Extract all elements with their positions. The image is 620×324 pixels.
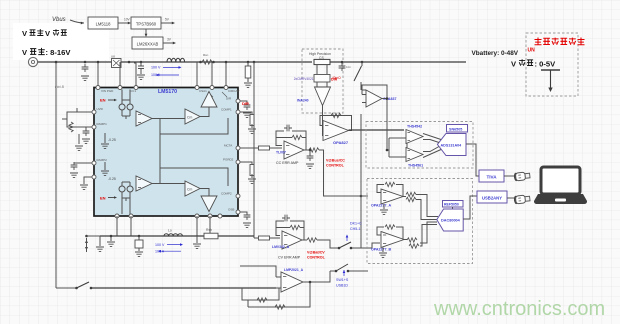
- svg-text:LMV342_A: LMV342_A: [272, 245, 290, 249]
- svg-text:LM5118: LM5118: [96, 21, 111, 26]
- battery symbol: [541, 69, 560, 71]
- svg-text:10n: 10n: [346, 65, 351, 69]
- capacitor C4 left: [83, 128, 90, 136]
- svg-text:100 V: 100 V: [151, 66, 161, 70]
- regulator U3 TPS7B960: [131, 17, 161, 29]
- svg-text:Vbattery: 0-48V: Vbattery: 0-48V: [472, 50, 519, 57]
- wire bottom pins to power bus: [117, 216, 210, 236]
- mcu TIVA box: [479, 170, 504, 182]
- svg-text:MCTA: MCTA: [224, 144, 232, 148]
- wire bottom return bus: [91, 287, 276, 289]
- svg-text:OPA827: OPA827: [333, 140, 349, 145]
- svg-text:www.cntronics.com: www.cntronics.com: [433, 298, 605, 320]
- wire OPA837 into ADC box: [387, 119, 389, 150]
- internal wire A1 to B1: [152, 118, 185, 120]
- op-amp A2: [136, 176, 152, 191]
- wire buffer input top: [240, 266, 281, 288]
- svg-text:CIRCAP: CIRCAP: [228, 89, 239, 93]
- svg-text:-0.25: -0.25: [108, 138, 116, 142]
- internal wire bus mid1: [160, 107, 228, 134]
- DAC dashed box: [367, 179, 473, 264]
- pin circles top: [96, 86, 100, 90]
- svg-text:CH5-1: CH5-1: [350, 227, 360, 231]
- inductor Lm: [167, 58, 185, 62]
- resistor R4 with ground: [78, 134, 80, 144]
- filter network rect: [389, 138, 407, 157]
- CV feedback capacitor: [276, 221, 284, 236]
- svg-text:COMP2: COMP2: [221, 192, 232, 196]
- wire arrow into LM5118: [70, 20, 84, 23]
- RC on COMP1 pin: [240, 101, 247, 104]
- transformer driver U15 SN6505: [447, 125, 468, 133]
- internal wire crossover: [159, 134, 161, 168]
- svg-text:Cm: Cm: [187, 116, 192, 120]
- OPA_B output resistors: [404, 239, 407, 241]
- svg-text:V@Bus/CC: V@Bus/CC: [326, 159, 345, 163]
- wire IC top pin feeds: [98, 62, 226, 86]
- svg-text:OSB: OSB: [228, 208, 234, 212]
- sense box F2: [138, 235, 141, 238]
- label red test battery: [534, 37, 584, 44]
- wire DAC box to USB2ANY: [463, 196, 477, 219]
- wire USB2ANY to usb plug: [507, 197, 514, 199]
- shunt resistor Rcs: [314, 59, 330, 64]
- svg-text:DAC80004: DAC80004: [441, 219, 461, 223]
- svg-text:Lo: Lo: [168, 229, 172, 233]
- ground internal bottom: [104, 162, 106, 170]
- svg-text:10V: 10V: [124, 18, 131, 22]
- inductor Lo: [164, 234, 182, 236]
- op-amp U8 OPA827: [323, 121, 349, 141]
- wire MCTA to CC amp: [240, 147, 258, 149]
- ground G7: [196, 236, 198, 243]
- ground G6: [110, 236, 112, 241]
- current mirror Q1 Q2: [119, 100, 133, 119]
- wire DAC to OPA_B: [420, 222, 437, 246]
- ground G8: [383, 204, 385, 209]
- wire TIVA to usb plug: [504, 175, 514, 177]
- node junction: [253, 61, 256, 64]
- svg-text:Rsh: Rsh: [206, 228, 212, 232]
- wire sense branch down: [253, 62, 255, 238]
- svg-text:Cm: Cm: [187, 188, 192, 192]
- svg-text:SW1+S: SW1+S: [336, 278, 349, 282]
- resistor R2 pullup with ground: [247, 61, 250, 64]
- svg-text:CSA1: CSA1: [199, 89, 207, 93]
- dac U18 DAC80004: [437, 209, 463, 231]
- svg-text:TPS7B960: TPS7B960: [136, 21, 157, 26]
- switch S3: [330, 270, 336, 272]
- svg-text:REF5050: REF5050: [444, 203, 459, 207]
- TVS D1 double arrow: [86, 238, 88, 252]
- svg-text:PGRD2: PGRD2: [223, 158, 234, 162]
- svg-text:DIR: DIR: [242, 101, 249, 106]
- wire INA240 output down: [323, 106, 325, 136]
- switch S1 vertical: [361, 61, 364, 64]
- wire CV output: [302, 239, 307, 241]
- svg-text:INA240: INA240: [297, 99, 309, 103]
- resistor network left of IC: [62, 108, 92, 127]
- white label panel top-left: [13, 23, 109, 60]
- wire OPA_A output resistor: [403, 196, 406, 198]
- svg-text:DK1+C: DK1+C: [350, 222, 362, 226]
- ground G9: [382, 248, 384, 253]
- switch S2: [339, 242, 351, 248]
- usb plug icon 1: [514, 171, 531, 181]
- wire REF to DAC: [452, 207, 454, 209]
- internal wire bus mid2: [160, 168, 228, 196]
- connector J1: [28, 57, 37, 66]
- fda U12 THS4542: [406, 130, 423, 144]
- wire RAMP2 stub: [84, 177, 92, 184]
- op-amp U11 bottom buffer: [281, 272, 303, 292]
- driver T1 up: [201, 92, 217, 108]
- wire LM26LVAB output: [163, 42, 173, 44]
- resistor Rsh bottom: [204, 233, 218, 239]
- wire TPS7B960 down to LM26LVAB: [145, 29, 147, 34]
- op-amp U16 OPA2277_A: [381, 189, 403, 204]
- OPA2277_B feedback resistor: [377, 227, 403, 240]
- OPA2277_A feedback resistor: [377, 185, 403, 197]
- adc U14 ADS131A04: [437, 134, 466, 156]
- svg-text:V@Bat/CV: V@Bat/CV: [307, 251, 325, 255]
- reference U17 REF5050: [443, 201, 464, 208]
- interface USB2ANY box: [477, 191, 507, 203]
- svg-text:USB1D: USB1D: [336, 284, 348, 288]
- svg-text:CV ERR AMP: CV ERR AMP: [278, 256, 301, 260]
- battery dashed box: [526, 33, 578, 96]
- wire OPA837 output down: [386, 99, 388, 120]
- svg-text:LM5170: LM5170: [158, 89, 177, 95]
- wire power bus bottom: [100, 235, 254, 237]
- svg-text:TIVA: TIVA: [486, 175, 497, 180]
- svg-text:RAMP1: RAMP1: [97, 122, 108, 126]
- current mirror Q3 Q4: [119, 182, 133, 201]
- mosfet Q5 with ground: [140, 61, 143, 64]
- switch S4 main minus: [56, 287, 76, 289]
- wire Vbus main bus: [38, 61, 312, 63]
- IC U1 LM5170 body: [94, 88, 238, 217]
- svg-text:LMP2021_A: LMP2021_A: [284, 268, 304, 272]
- op-amp U19 OPA2277_B: [381, 232, 404, 248]
- TLV07 feedback capacitor: [276, 131, 284, 146]
- ADC dashed box: [366, 122, 473, 169]
- wire ADC to TIVA: [466, 144, 479, 176]
- svg-text:U8: U8: [111, 55, 115, 59]
- svg-text:VIN PGD: VIN PGD: [101, 89, 114, 93]
- svg-text:-0.25: -0.25: [108, 177, 116, 181]
- resistor Rsn: [202, 60, 212, 64]
- svg-text:40mΩ: 40mΩ: [332, 76, 341, 80]
- svg-text:CONTROL: CONTROL: [307, 256, 326, 260]
- svg-text:THS4542: THS4542: [407, 125, 422, 129]
- svg-text:THS4561: THS4561: [408, 164, 423, 168]
- ground G5: [99, 236, 101, 246]
- op-amp U9 TLV07 CC error amp: [284, 141, 304, 159]
- svg-text:CC ERR AMP: CC ERR AMP: [276, 161, 299, 165]
- wire OPA827 output to ADC box: [349, 129, 405, 131]
- svg-text:CONTROL: CONTROL: [326, 164, 345, 168]
- fda U13 THS4561: [406, 148, 423, 162]
- fuse F1 box: [112, 59, 122, 68]
- svg-text:OPA2277_B: OPA2277_B: [371, 248, 392, 252]
- svg-text:2xCMRV4021: 2xCMRV4021: [294, 77, 314, 81]
- driver T2 down: [201, 196, 217, 212]
- wire COMP1 RC: [240, 112, 252, 116]
- svg-text:: 0-5V: : 0-5V: [535, 59, 557, 68]
- comparator B1: [185, 109, 200, 124]
- high precision CS dashed box: [302, 49, 343, 113]
- laptop: [534, 167, 587, 204]
- svg-text:RAMP2: RAMP2: [97, 158, 108, 162]
- usb plug icon 2: [514, 194, 531, 204]
- supervisor U4 LM26LVAB: [132, 37, 163, 49]
- amplifier U6 INA240 down: [315, 87, 331, 106]
- wire TLV07 output: [304, 149, 309, 151]
- svg-text:DIR: DIR: [226, 97, 232, 101]
- RC on PGRD2 pin: [240, 162, 252, 166]
- op-amp U10 CV error amp: [282, 231, 302, 249]
- wire control to DAC box: [361, 195, 368, 197]
- internal wire A2 to B2: [152, 183, 185, 185]
- svg-text:ADS131A04: ADS131A04: [441, 143, 463, 147]
- buffer lower resistor: [248, 282, 310, 307]
- svg-text:100 V: 100 V: [155, 243, 165, 247]
- svg-text:UN: UN: [528, 48, 536, 54]
- buffer feedback network: [242, 288, 279, 301]
- wire buffer output: [303, 271, 330, 282]
- wire CC path down: [360, 114, 362, 248]
- svg-text:EN: EN: [100, 196, 106, 201]
- internal wire mirror to top pins: [122, 90, 130, 101]
- pin circles left: [92, 110, 96, 114]
- pin circles bottom: [115, 214, 119, 218]
- svg-text:EN: EN: [100, 98, 106, 103]
- regulator U2 LM5118: [88, 17, 118, 29]
- svg-text:COMP1: COMP1: [221, 108, 232, 112]
- comparator B2: [185, 181, 200, 196]
- wire THS outputs to ADC: [423, 134, 441, 158]
- svg-text:: 8-16V: : 8-16V: [46, 48, 72, 57]
- wire TPS7B960 output 5V: [161, 22, 172, 24]
- ground internal top: [104, 133, 106, 143]
- svg-text:LM26XXAB: LM26XXAB: [137, 41, 159, 46]
- svg-text:Rsn: Rsn: [203, 53, 209, 57]
- RC on COMP2 pin: [240, 212, 247, 214]
- capacitor C5 lower left pin: [74, 162, 92, 164]
- svg-text:mini-B: mini-B: [55, 85, 64, 89]
- sense resistor pair: [314, 75, 330, 83]
- op-amp A1: [136, 111, 152, 126]
- svg-text:Vbus: Vbus: [52, 17, 66, 23]
- capacitor C6 on bus: [341, 61, 344, 64]
- capacitor C1 with ground: [84, 61, 87, 64]
- svg-text:UVR: UVR: [97, 107, 104, 111]
- svg-text:USB2ANY: USB2ANY: [482, 196, 502, 201]
- wire LM5118 to TPS7B960: [118, 22, 128, 24]
- TLV07 feedback resistor: [292, 135, 302, 139]
- wire left vertical branch: [55, 62, 57, 288]
- svg-text:OPA2277_A: OPA2277_A: [371, 204, 392, 208]
- pin circles right: [236, 99, 240, 103]
- CV feedback resistor: [290, 225, 300, 229]
- wire kelvin sense taps: [317, 65, 327, 74]
- internal wire mirror to bottom pins: [122, 198, 130, 214]
- svg-text:TLV07: TLV07: [276, 151, 286, 155]
- node junction: [199, 61, 202, 64]
- wire CV input: [254, 237, 258, 239]
- svg-text:SN6505: SN6505: [449, 127, 462, 131]
- op-amp U7 OPA837: [366, 90, 382, 107]
- wire OPA827 feedback: [320, 116, 352, 131]
- wire OPA837 feedback: [362, 85, 387, 99]
